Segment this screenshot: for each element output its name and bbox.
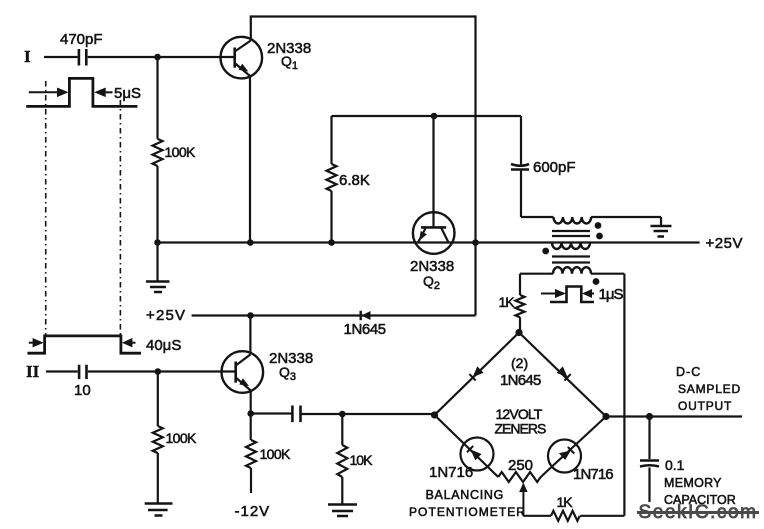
potentiometer 250	[498, 472, 540, 482]
wire: Q3 collector up	[249, 316, 251, 355]
svg-text:100K: 100K	[166, 430, 198, 446]
svg-text:100K: 100K	[165, 144, 197, 160]
node: 6.8K junction	[328, 239, 335, 246]
wire: 100K input I top lead	[156, 57, 158, 139]
svg-text:+25V: +25V	[706, 235, 743, 252]
node: Q1 emitter junction	[247, 239, 254, 246]
capacitor 470pF plates	[79, 49, 86, 66]
arrow left (1uS)	[541, 293, 556, 295]
bridge diagonal: left node to pot	[435, 415, 499, 477]
pulse waveform II (40uS)	[27, 336, 141, 353]
arrow left (40uS)	[29, 342, 33, 344]
svg-text:I: I	[24, 47, 31, 66]
resistor 1K (bridge top)	[516, 295, 525, 317]
svg-text:1N645: 1N645	[344, 321, 386, 338]
capacitor 0.1 memory	[648, 417, 650, 460]
node: input II junction	[155, 368, 162, 375]
wire: top loop Q1 collector to right vertical	[251, 17, 476, 316]
node: 10K junction	[339, 411, 346, 418]
resistor 100K (input I)	[153, 139, 163, 166]
transformer T1 winding 1 (primary)	[521, 216, 554, 218]
svg-text:II: II	[26, 362, 40, 381]
svg-text:6.8K: 6.8K	[339, 172, 370, 189]
transformer core lines	[552, 231, 590, 263]
bridge diagonal: right node to pot	[541, 417, 606, 478]
svg-text:2N338: 2N338	[269, 350, 313, 367]
wire: second +25V line	[192, 314, 476, 316]
wire: winding3 right lead down	[623, 274, 625, 516]
dash-dot timing line right	[119, 100, 121, 336]
svg-text:470pF: 470pF	[60, 31, 103, 48]
svg-text:5μS: 5μS	[114, 85, 141, 102]
wire: 100K input II top lead	[157, 372, 159, 427]
svg-text:Q2: Q2	[423, 273, 440, 292]
bridge diagonal: top node to right node	[519, 333, 606, 417]
pulse waveform I	[26, 78, 137, 106]
node: bus-ground junction	[154, 239, 161, 246]
transistor Q3	[222, 351, 264, 393]
node: Q3 collector junction	[247, 312, 254, 319]
svg-text:0.1: 0.1	[665, 457, 685, 473]
svg-text:SAMPLED: SAMPLED	[678, 382, 741, 396]
transistor Q1	[221, 37, 263, 79]
wire: input I right segment to Q1 base	[88, 56, 235, 58]
wire: input I left segment	[44, 56, 78, 58]
ground (bus left end)	[156, 243, 158, 282]
resistor 100K (input II)	[153, 426, 163, 453]
wire: pot wiper bottom run	[523, 515, 551, 517]
wire: output line	[606, 415, 742, 417]
diode 1N645 (series)	[360, 311, 362, 320]
svg-text:+25V: +25V	[146, 307, 186, 324]
wire: main +25V bus	[158, 241, 700, 243]
capacitor 600pF	[511, 164, 529, 166]
svg-text:POTENTIOMETER: POTENTIOMETER	[409, 505, 526, 519]
wire: Q3 emitter down	[250, 391, 252, 414]
svg-text:1N716: 1N716	[573, 466, 613, 483]
bridge diagonal: top node to left node	[435, 333, 520, 416]
node: Q3 emitter junction	[247, 410, 254, 417]
zener circle left (1N716)	[461, 438, 494, 471]
wire: winding3 left lead down	[519, 274, 521, 295]
transistor Q2	[413, 212, 455, 254]
svg-text:OUTPUT: OUTPUT	[678, 399, 732, 413]
ground (input II)	[145, 504, 173, 516]
svg-text:-12V: -12V	[235, 503, 271, 520]
ground (winding 1)	[651, 226, 672, 237]
svg-text:1K: 1K	[499, 294, 516, 310]
wire: Q1 emitter down to bus	[249, 76, 251, 243]
svg-text:MEMORY: MEMORY	[664, 476, 722, 490]
svg-text:1K: 1K	[557, 494, 574, 510]
wire: emitter line right segment to bridge	[302, 413, 435, 415]
zener circle right (1N716)	[548, 440, 581, 473]
svg-text:(2): (2)	[511, 355, 528, 371]
wire: y116 branch	[332, 115, 522, 117]
svg-text:1μS: 1μS	[599, 286, 624, 303]
capacitor (coupling) plates	[292, 406, 300, 423]
node: bridge right	[602, 413, 609, 420]
wire: 100K (-12V) top lead	[250, 414, 252, 441]
arrow right (1uS)	[590, 293, 594, 295]
node: bridge left	[431, 411, 438, 418]
phasing dot 1	[595, 222, 602, 229]
svg-text:D-C: D-C	[676, 365, 701, 379]
svg-text:BALANCING: BALANCING	[426, 488, 505, 502]
node: Q2 collector junction	[472, 239, 479, 246]
wire: 100K bottom lead to bus	[156, 166, 158, 243]
node: memory capacitor junction	[646, 413, 653, 420]
wire: input II left segment	[46, 370, 78, 372]
arrow right (40uS)	[132, 342, 136, 344]
wire: emitter line left segment	[251, 412, 292, 414]
svg-text:250: 250	[508, 457, 533, 474]
phasing dot 2	[596, 233, 603, 240]
resistor 10K	[337, 445, 347, 477]
svg-text:1N645: 1N645	[500, 372, 541, 389]
diode arrow (left upper)	[473, 366, 484, 377]
node: Q2 base junction	[431, 113, 438, 120]
svg-text:1N716: 1N716	[429, 464, 473, 481]
transformer T1 winding 3 (secondary)	[553, 267, 591, 274]
arrow left (5uS)	[29, 91, 58, 93]
wire: bottom run to right vertical	[580, 515, 624, 517]
pulse waveform 1uS	[550, 287, 594, 303]
wire: input II right segment to Q3 base	[88, 370, 236, 372]
resistor 1K (bottom)	[551, 511, 580, 521]
pot wiper arrow	[522, 489, 524, 516]
svg-text:100K: 100K	[260, 446, 292, 462]
phasing dot 4	[593, 278, 600, 285]
arrow right (5uS)	[105, 91, 113, 93]
svg-text:40μS: 40μS	[146, 337, 181, 354]
resistor 6.8K	[330, 116, 332, 164]
ground (10K)	[328, 505, 357, 517]
dash-dot timing line left	[45, 81, 47, 336]
diode arrow (right upper)	[557, 366, 568, 377]
phasing dot 3	[542, 248, 549, 255]
node: bridge top	[515, 329, 522, 336]
svg-text:ZENERS: ZENERS	[495, 421, 546, 437]
svg-text:10K: 10K	[350, 452, 374, 468]
transformer T1 winding 2 (on +25V bus)	[552, 243, 590, 250]
svg-text:10: 10	[74, 382, 91, 399]
svg-text:600pF: 600pF	[533, 159, 576, 176]
resistor 100K (-12V)	[246, 440, 256, 468]
capacitor 10 plates	[79, 365, 86, 379]
node: input I junction	[154, 54, 161, 61]
wire: 10K top lead	[341, 414, 343, 445]
